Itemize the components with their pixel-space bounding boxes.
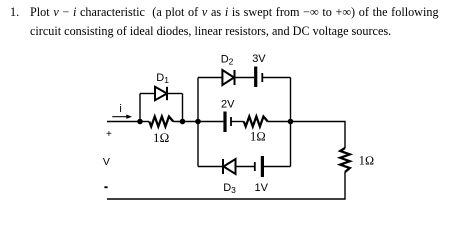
wire: bottom branch left bbox=[198, 166, 224, 168]
wire: main to battery 2V bbox=[198, 121, 223, 123]
resistor R1 1ohm zigzag bbox=[149, 117, 173, 127]
wire: top branch mid bbox=[235, 77, 255, 79]
node: left junction dot bbox=[137, 119, 143, 125]
wire: D1 branch top left bbox=[140, 93, 155, 95]
wire: top branch left bbox=[198, 77, 222, 79]
problem text line 1 bbox=[10, 5, 19, 20]
wire: D1 branch left vertical bbox=[139, 94, 141, 122]
problem text line 2 bbox=[30, 24, 391, 39]
svg-text:+: + bbox=[106, 129, 112, 140]
battery 3V bbox=[256, 67, 263, 88]
resistor RL 1ohm vertical zigzag bbox=[340, 148, 350, 172]
current arrow i bbox=[112, 115, 132, 119]
svg-text:1V: 1V bbox=[255, 182, 269, 194]
wire: R2 to right bus bbox=[268, 121, 291, 123]
battery 1V bbox=[255, 156, 263, 177]
wire: D1 branch right vertical bbox=[182, 94, 184, 122]
wire: main under D1 right bbox=[173, 121, 198, 123]
node: right junction bbox=[288, 119, 294, 125]
wire: right bus vertical bbox=[290, 78, 292, 167]
diode D1 bbox=[155, 87, 167, 100]
svg-text:1Ω: 1Ω bbox=[359, 154, 374, 168]
label - bbox=[104, 186, 107, 188]
node: right of R1 bbox=[180, 119, 186, 125]
svg-text:1Ω: 1Ω bbox=[250, 129, 266, 143]
svg-text:V: V bbox=[103, 156, 110, 168]
battery 2V bbox=[225, 112, 231, 133]
svg-text:3V: 3V bbox=[252, 53, 266, 65]
svg-text:D2: D2 bbox=[221, 54, 234, 67]
diode D3 bbox=[223, 159, 236, 174]
wire: battery 2V to R2 bbox=[231, 121, 244, 123]
svg-text:1Ω: 1Ω bbox=[153, 130, 170, 145]
diode D2 bbox=[222, 70, 234, 85]
wire: left bus vertical bbox=[197, 78, 199, 167]
svg-text:i: i bbox=[119, 103, 121, 115]
wire: to load resistor bbox=[291, 122, 346, 149]
wire: bottom branch right bbox=[262, 166, 290, 168]
wire: D1 branch top right bbox=[167, 93, 183, 95]
wire: load bottom and return bbox=[107, 172, 345, 199]
svg-text:2V: 2V bbox=[221, 99, 235, 111]
resistor R2 1ohm zigzag bbox=[244, 117, 268, 127]
svg-text:D1: D1 bbox=[156, 72, 169, 85]
wire: input lead top bbox=[107, 121, 140, 123]
node: center junction bbox=[195, 119, 201, 125]
wire: bottom branch mid bbox=[236, 166, 255, 168]
wire: main under D1 left bbox=[140, 121, 149, 123]
svg-text:D3: D3 bbox=[223, 182, 236, 195]
wire: top branch right bbox=[262, 77, 290, 79]
